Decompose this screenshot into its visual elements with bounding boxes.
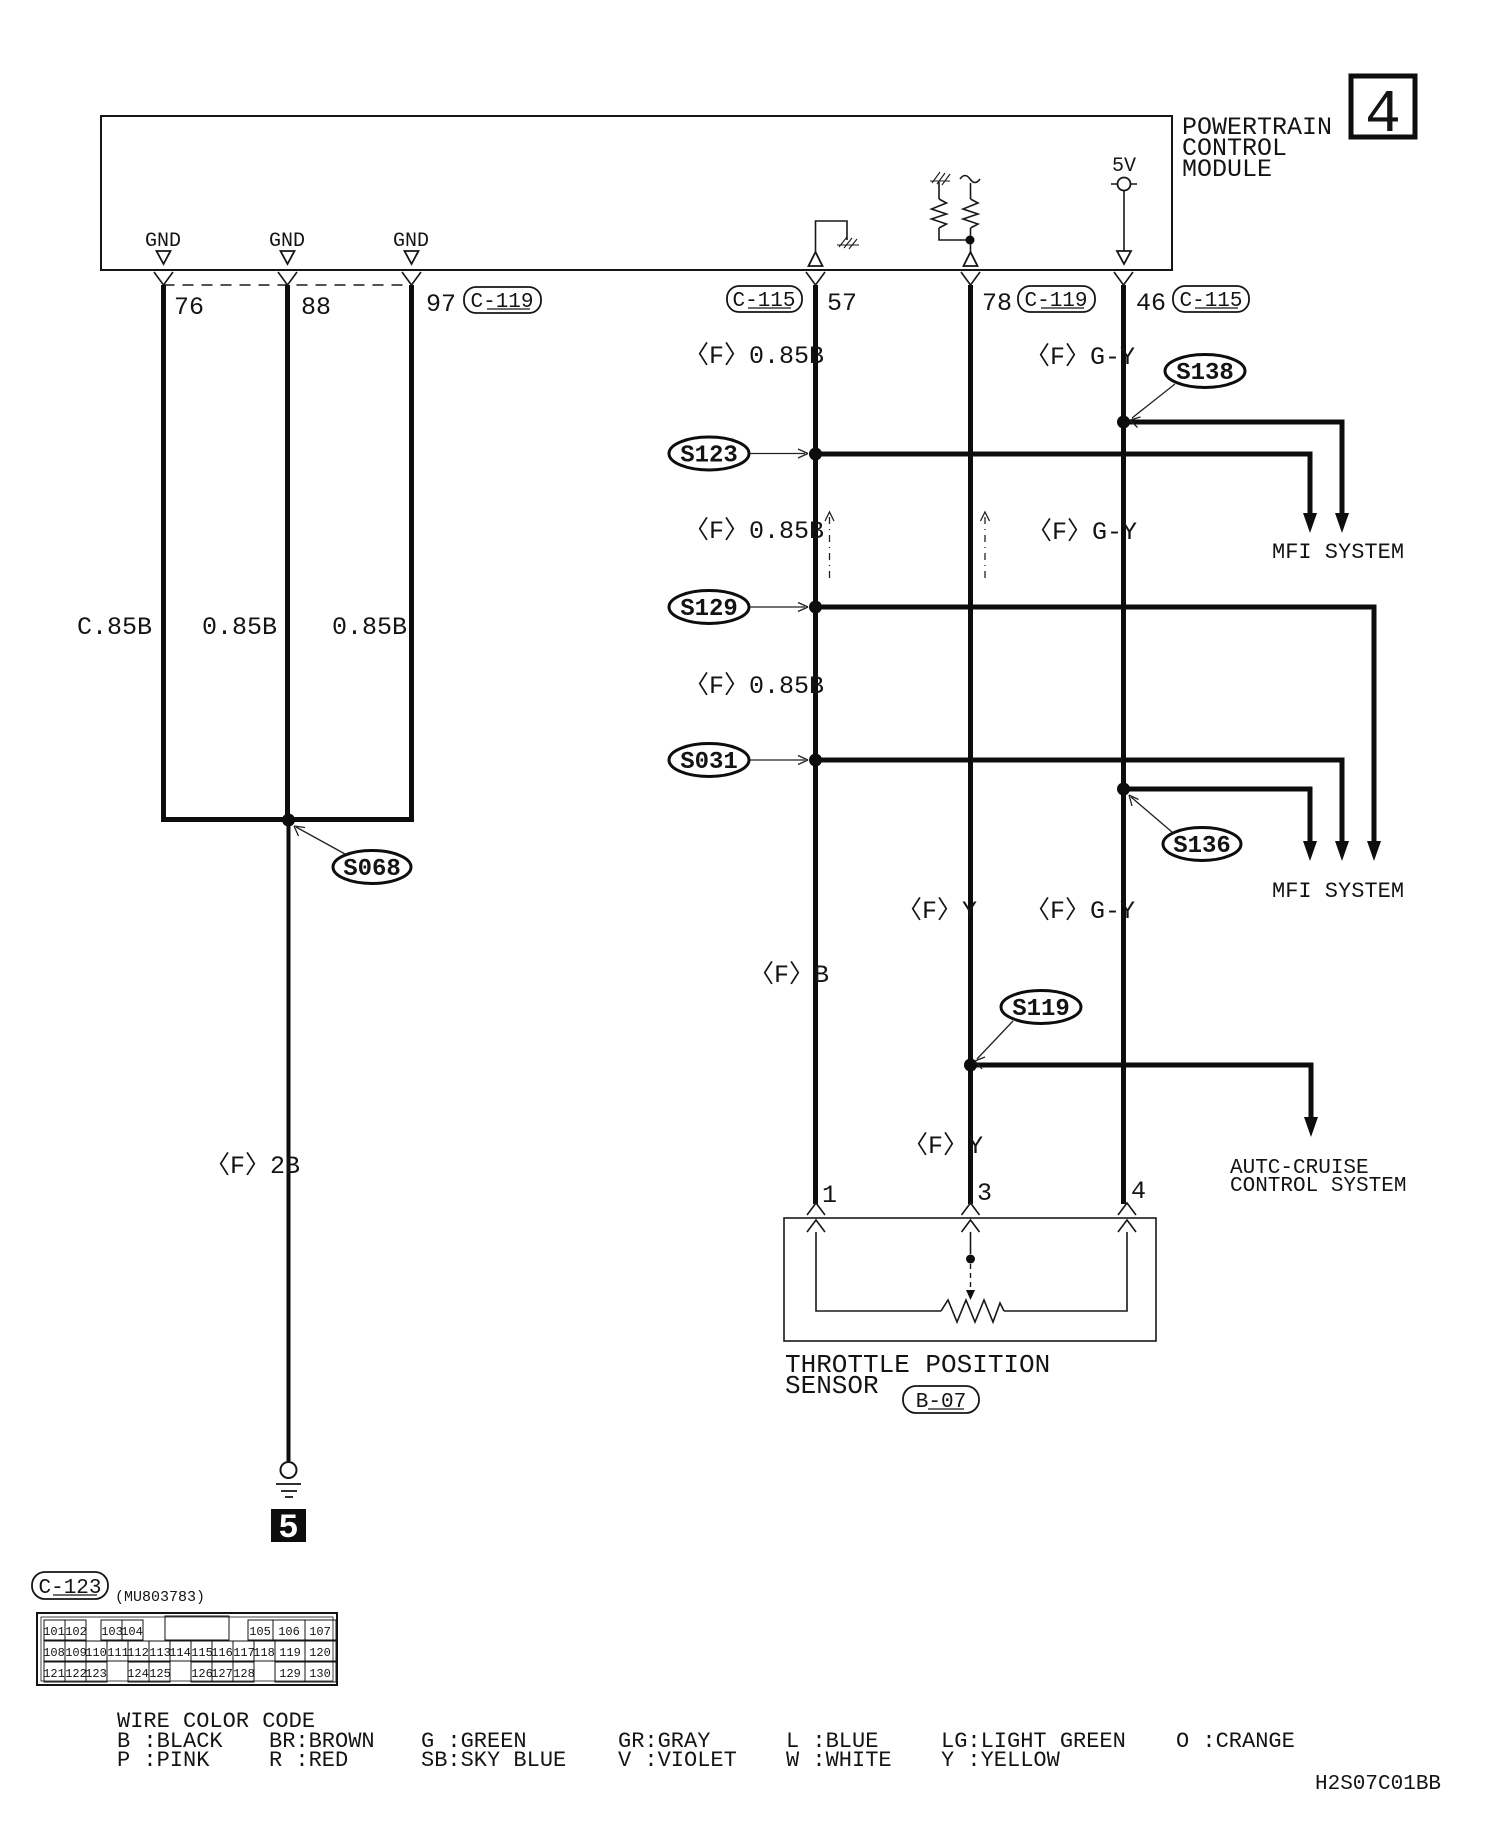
svg-text:5V: 5V <box>1112 155 1136 178</box>
svg-text:GND: GND <box>269 230 305 253</box>
svg-text:127: 127 <box>211 1667 233 1681</box>
C-123 grid cells <box>44 1616 336 1682</box>
splice label S129 <box>669 591 808 624</box>
svg-text:〈F〉Y: 〈F〉Y <box>903 1131 983 1161</box>
connector label C-115 right <box>1173 286 1249 313</box>
splice net S136 to MFI SYSTEM <box>1124 789 1318 861</box>
svg-text:109: 109 <box>65 1646 87 1660</box>
connector label B-07 <box>903 1386 979 1414</box>
wire pin 97 (0.85B) <box>409 285 414 817</box>
internal circuit pin 57: pull to chassis ground <box>809 221 860 266</box>
PCM box outline <box>101 116 1172 270</box>
internal circuit pin 46: 5V supply <box>1111 155 1137 264</box>
svg-text:O :CRANGE: O :CRANGE <box>1176 1729 1295 1754</box>
svg-text:114: 114 <box>169 1646 191 1660</box>
svg-text:115: 115 <box>191 1646 213 1660</box>
svg-text:105: 105 <box>249 1625 271 1639</box>
svg-text:119: 119 <box>279 1646 301 1660</box>
connector chevrons pin 4 <box>1118 1203 1136 1232</box>
junction S123 <box>809 448 822 461</box>
splice label S136 <box>1129 795 1241 861</box>
svg-text:B-07: B-07 <box>916 1391 966 1414</box>
svg-text:Y :YELLOW: Y :YELLOW <box>941 1748 1061 1773</box>
svg-text:130: 130 <box>309 1667 331 1681</box>
svg-text:(MU803783): (MU803783) <box>115 1589 205 1606</box>
svg-text:78: 78 <box>982 289 1012 318</box>
svg-text:S136: S136 <box>1173 833 1231 860</box>
svg-text:124: 124 <box>127 1667 149 1681</box>
ground G (body ground) <box>276 1462 301 1497</box>
GND label pin 76 <box>145 230 181 264</box>
svg-text:120: 120 <box>309 1646 331 1660</box>
svg-text:MFI SYSTEM: MFI SYSTEM <box>1272 540 1404 565</box>
splice label S138 <box>1130 355 1245 428</box>
svg-text:97: 97 <box>426 290 456 319</box>
connector terminal pin 88 <box>278 272 297 285</box>
svg-text:R :RED: R :RED <box>269 1748 348 1773</box>
svg-text:76: 76 <box>174 293 204 322</box>
svg-text:46: 46 <box>1136 289 1166 318</box>
connector terminal pin 78 <box>961 272 980 285</box>
svg-text:MFI SYSTEM: MFI SYSTEM <box>1272 879 1404 904</box>
svg-text:GND: GND <box>145 230 181 253</box>
svg-text:〈F〉Y: 〈F〉Y <box>897 896 977 926</box>
wire pin 57 (B) <box>813 285 818 1204</box>
svg-text:W :WHITE: W :WHITE <box>786 1748 892 1773</box>
svg-text:〈F〉G-Y: 〈F〉G-Y <box>1025 896 1135 926</box>
svg-text:MODULE: MODULE <box>1182 155 1272 184</box>
svg-text:S123: S123 <box>680 443 738 470</box>
svg-text:126: 126 <box>191 1667 213 1681</box>
svg-text:112: 112 <box>127 1646 149 1660</box>
wire pin 76 (0.85B) <box>161 285 166 820</box>
svg-text:103: 103 <box>101 1625 123 1639</box>
junction S129 <box>809 601 822 614</box>
wire pin 78 (Y) <box>968 285 973 1204</box>
connector terminal pin 57 <box>806 272 825 285</box>
svg-text:〈F〉0.85B: 〈F〉0.85B <box>684 516 824 546</box>
svg-text:C-119: C-119 <box>470 291 533 314</box>
svg-text:S119: S119 <box>1012 996 1070 1023</box>
svg-text:102: 102 <box>65 1625 87 1639</box>
svg-text:S031: S031 <box>680 749 738 776</box>
svg-text:116: 116 <box>211 1646 233 1660</box>
svg-text:117: 117 <box>233 1646 255 1660</box>
connector label C-115 left <box>727 286 802 313</box>
page reference box 5 <box>271 1509 306 1548</box>
svg-text:1: 1 <box>822 1181 837 1210</box>
flow arrow on wire 78 <box>981 512 990 580</box>
connector label C-119 right <box>1018 286 1095 313</box>
svg-text:107: 107 <box>309 1625 331 1639</box>
svg-text:〈F〉0.85B: 〈F〉0.85B <box>684 341 824 371</box>
svg-text:〈F〉B: 〈F〉B <box>749 960 829 990</box>
junction S119 <box>964 1059 977 1072</box>
svg-text:110: 110 <box>85 1646 107 1660</box>
connector label C-123 <box>32 1572 108 1600</box>
TPS potentiometer resistor <box>941 1300 1004 1322</box>
GND label pin 88 <box>269 230 305 264</box>
junction S031 <box>809 754 822 767</box>
junction S068 <box>282 814 295 827</box>
TPS wiper: wire pin 3, junction and arrow <box>966 1232 975 1300</box>
connector terminal pin 97 <box>402 272 421 285</box>
AUTC-CRUISE CONTROL SYSTEM label <box>1230 1157 1406 1198</box>
svg-text:GND: GND <box>393 230 429 253</box>
svg-text:S129: S129 <box>680 596 738 623</box>
svg-text:106: 106 <box>278 1625 300 1639</box>
svg-text:121: 121 <box>43 1667 65 1681</box>
svg-text:3: 3 <box>977 1179 992 1208</box>
svg-text:4: 4 <box>1365 82 1401 150</box>
splice bus joining 76/88/97 <box>161 817 414 822</box>
page reference box 4 <box>1351 76 1415 150</box>
connector label C-119 <box>464 287 541 314</box>
svg-text:SB:SKY BLUE: SB:SKY BLUE <box>421 1748 566 1773</box>
splice label S119 <box>975 991 1081 1070</box>
connector terminal pin 46 <box>1114 272 1133 285</box>
svg-text:SENSOR: SENSOR <box>785 1371 879 1401</box>
wire S068 to ground (2B) <box>287 820 291 1461</box>
TPS internal wire pin 1 side <box>816 1232 941 1311</box>
svg-text:C.85B: C.85B <box>77 613 152 642</box>
splice label S068 <box>294 826 411 884</box>
svg-text:P :PINK: P :PINK <box>117 1748 210 1773</box>
dashed connector line C-119 <box>164 284 412 286</box>
svg-text:101: 101 <box>43 1625 65 1639</box>
svg-text:〈F〉G-Y: 〈F〉G-Y <box>1025 342 1135 372</box>
wire pin 46 (G-Y) <box>1121 285 1126 1204</box>
splice label S123 <box>669 437 808 470</box>
svg-text:〈F〉G-Y: 〈F〉G-Y <box>1027 517 1137 547</box>
connector C-123 pin grid <box>37 1613 337 1685</box>
throttle position sensor box <box>784 1218 1156 1341</box>
svg-text:0.85B: 0.85B <box>332 613 407 642</box>
label THROTTLE POSITION SENSOR <box>785 1350 1050 1401</box>
svg-text:118: 118 <box>253 1646 275 1660</box>
flow arrow on wire 57 <box>825 512 834 580</box>
splice net S129 to MFI SYSTEM <box>816 607 1382 861</box>
GND label pin 97 <box>393 230 429 264</box>
svg-text:122: 122 <box>65 1667 87 1681</box>
svg-text:S068: S068 <box>343 856 401 883</box>
splice net S138 to MFI SYSTEM <box>1124 422 1350 533</box>
svg-text:C-119: C-119 <box>1024 290 1087 313</box>
wire color code legend <box>117 1709 1295 1773</box>
svg-text:V :VIOLET: V :VIOLET <box>618 1748 737 1773</box>
svg-text:129: 129 <box>279 1667 301 1681</box>
splice label S031 <box>669 744 808 777</box>
connector chevrons pin 3 <box>962 1203 980 1232</box>
svg-text:〈F〉2B: 〈F〉2B <box>205 1151 300 1181</box>
svg-text:104: 104 <box>121 1625 143 1639</box>
svg-text:H2S07C01BB: H2S07C01BB <box>1315 1773 1441 1796</box>
svg-text:88: 88 <box>301 293 331 322</box>
svg-text:125: 125 <box>149 1667 171 1681</box>
connector terminal pin 76 <box>154 272 173 285</box>
svg-text:4: 4 <box>1131 1177 1146 1206</box>
wire pin 88 (0.85B) <box>285 285 290 820</box>
svg-text:C-115: C-115 <box>732 290 795 313</box>
svg-text:C-115: C-115 <box>1179 290 1242 313</box>
svg-text:128: 128 <box>233 1667 255 1681</box>
junction S138 <box>1117 416 1130 429</box>
TPS internal wire pin 4 side <box>1004 1232 1127 1311</box>
svg-text:113: 113 <box>149 1646 171 1660</box>
svg-text:〈F〉0.85B: 〈F〉0.85B <box>684 671 824 701</box>
svg-text:CONTROL SYSTEM: CONTROL SYSTEM <box>1230 1175 1406 1198</box>
svg-text:108: 108 <box>43 1646 65 1660</box>
label: POWERTRAIN CONTROL MODULE <box>1182 113 1332 184</box>
internal circuit pin 78: two pull resistors <box>930 172 980 266</box>
svg-text:123: 123 <box>85 1667 107 1681</box>
junction S136 <box>1117 783 1130 796</box>
splice net S031 to MFI SYSTEM <box>816 760 1350 861</box>
connector chevrons pin 1 <box>807 1203 825 1232</box>
splice net S119 to AUTO-CRUISE <box>971 1065 1319 1137</box>
splice net S123 to MFI SYSTEM <box>816 454 1318 533</box>
svg-text:S138: S138 <box>1176 360 1234 387</box>
svg-text:111: 111 <box>107 1646 129 1660</box>
svg-text:C-123: C-123 <box>38 1577 101 1600</box>
svg-text:57: 57 <box>827 289 857 318</box>
svg-text:5: 5 <box>278 1510 298 1548</box>
svg-text:0.85B: 0.85B <box>202 613 277 642</box>
